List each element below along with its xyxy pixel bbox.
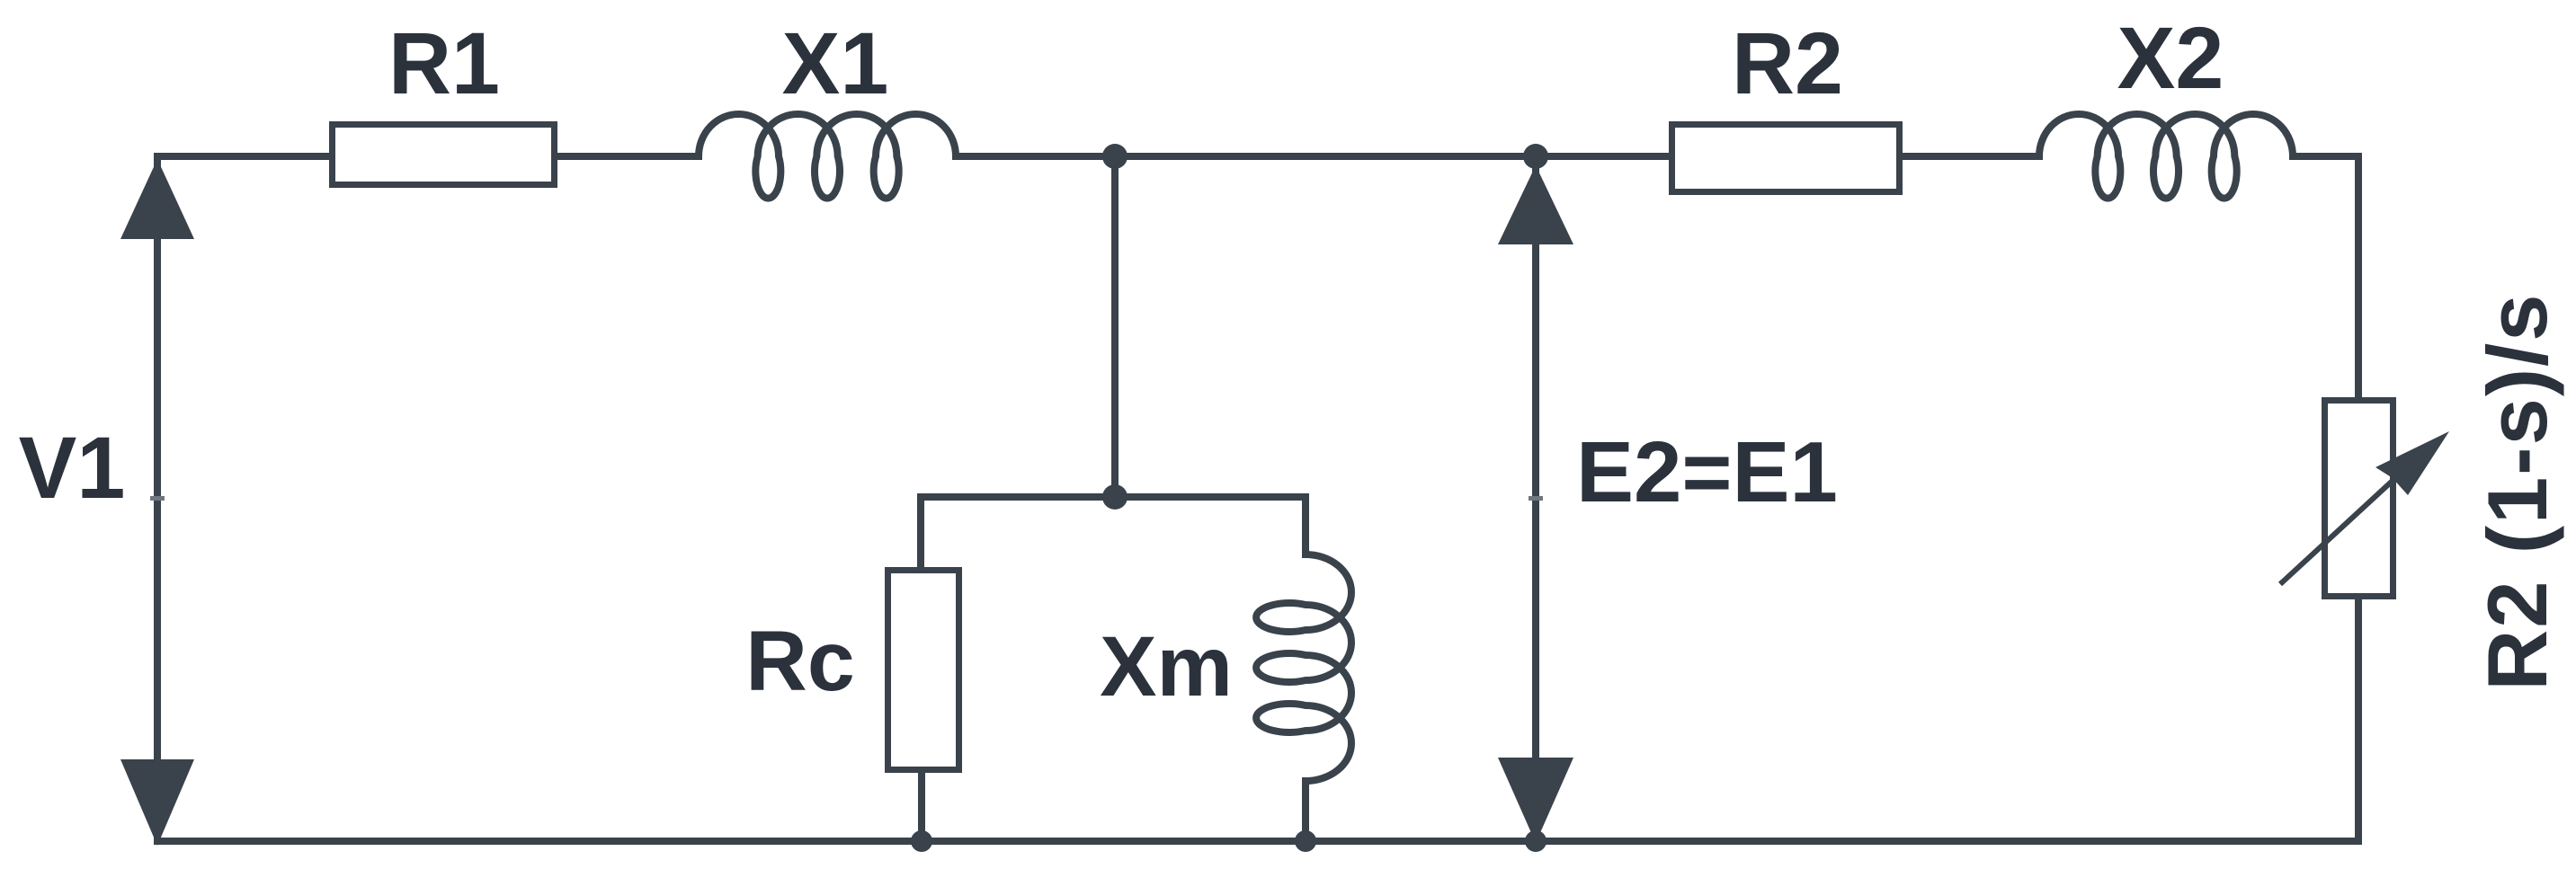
- wire right branch upper: [2355, 156, 2362, 401]
- inductor Xm: [1256, 554, 1351, 781]
- wire R1 to X1: [557, 153, 699, 160]
- wire node A to shunt tee: [1111, 156, 1119, 497]
- wire Xm to bottom rail: [1302, 781, 1309, 841]
- tick on V1 line: [150, 496, 165, 501]
- shunt tee junction dot: [1102, 484, 1128, 510]
- node B junction dot: [1523, 144, 1548, 169]
- V1 arrow up: [120, 159, 194, 239]
- wire tee to Xm: [1302, 497, 1309, 554]
- svg-text:Rc: Rc: [745, 614, 854, 709]
- svg-text:R2: R2: [1732, 14, 1843, 112]
- svg-text:X2: X2: [2117, 9, 2224, 107]
- wire left branch V1: [154, 156, 161, 841]
- wire X1 to node A: [956, 153, 1115, 160]
- variable resistor arrowhead: [2375, 431, 2449, 495]
- variable resistor arrow shaft: [2280, 479, 2394, 584]
- svg-text:R1: R1: [388, 14, 500, 112]
- E2 arrow up: [1498, 165, 1573, 244]
- svg-text:X1: X1: [782, 14, 889, 112]
- resistor R2: [1672, 125, 1900, 192]
- svg-text:Xm: Xm: [1100, 619, 1233, 714]
- svg-text:E2=E1: E2=E1: [1576, 424, 1838, 520]
- svg-text:V1: V1: [19, 419, 126, 517]
- wire bottom rail: [157, 838, 2358, 845]
- Rc bottom junction dot: [911, 830, 932, 852]
- wire Rc to bottom rail: [918, 770, 925, 841]
- wire node B to R2: [1536, 153, 1669, 160]
- wire E2 measurement line: [1532, 156, 1539, 841]
- wire tee to Rc: [917, 497, 924, 570]
- wire R2 to X2: [1903, 153, 2039, 160]
- node A junction dot: [1102, 144, 1128, 169]
- wire node A to node B: [1115, 153, 1536, 160]
- inductor X1: [699, 114, 956, 199]
- wire shunt tee bar: [921, 493, 1306, 501]
- E2 bottom junction dot: [1525, 830, 1546, 852]
- tick on E2 line: [1529, 496, 1543, 501]
- svg-text:R2 (1-s)/s: R2 (1-s)/s: [2470, 292, 2564, 690]
- V1 arrow down: [120, 759, 194, 846]
- wire right branch lower: [2355, 597, 2362, 841]
- wire X2 to top-right corner: [2293, 153, 2358, 160]
- Xm bottom junction dot: [1295, 830, 1316, 852]
- variable resistor R2(1-s)/s box: [2325, 401, 2393, 597]
- wire top-left to R1: [157, 153, 329, 160]
- resistor R1: [333, 125, 555, 185]
- resistor Rc: [888, 571, 959, 770]
- inductor X2: [2039, 114, 2293, 199]
- E2 arrow down: [1498, 758, 1573, 843]
